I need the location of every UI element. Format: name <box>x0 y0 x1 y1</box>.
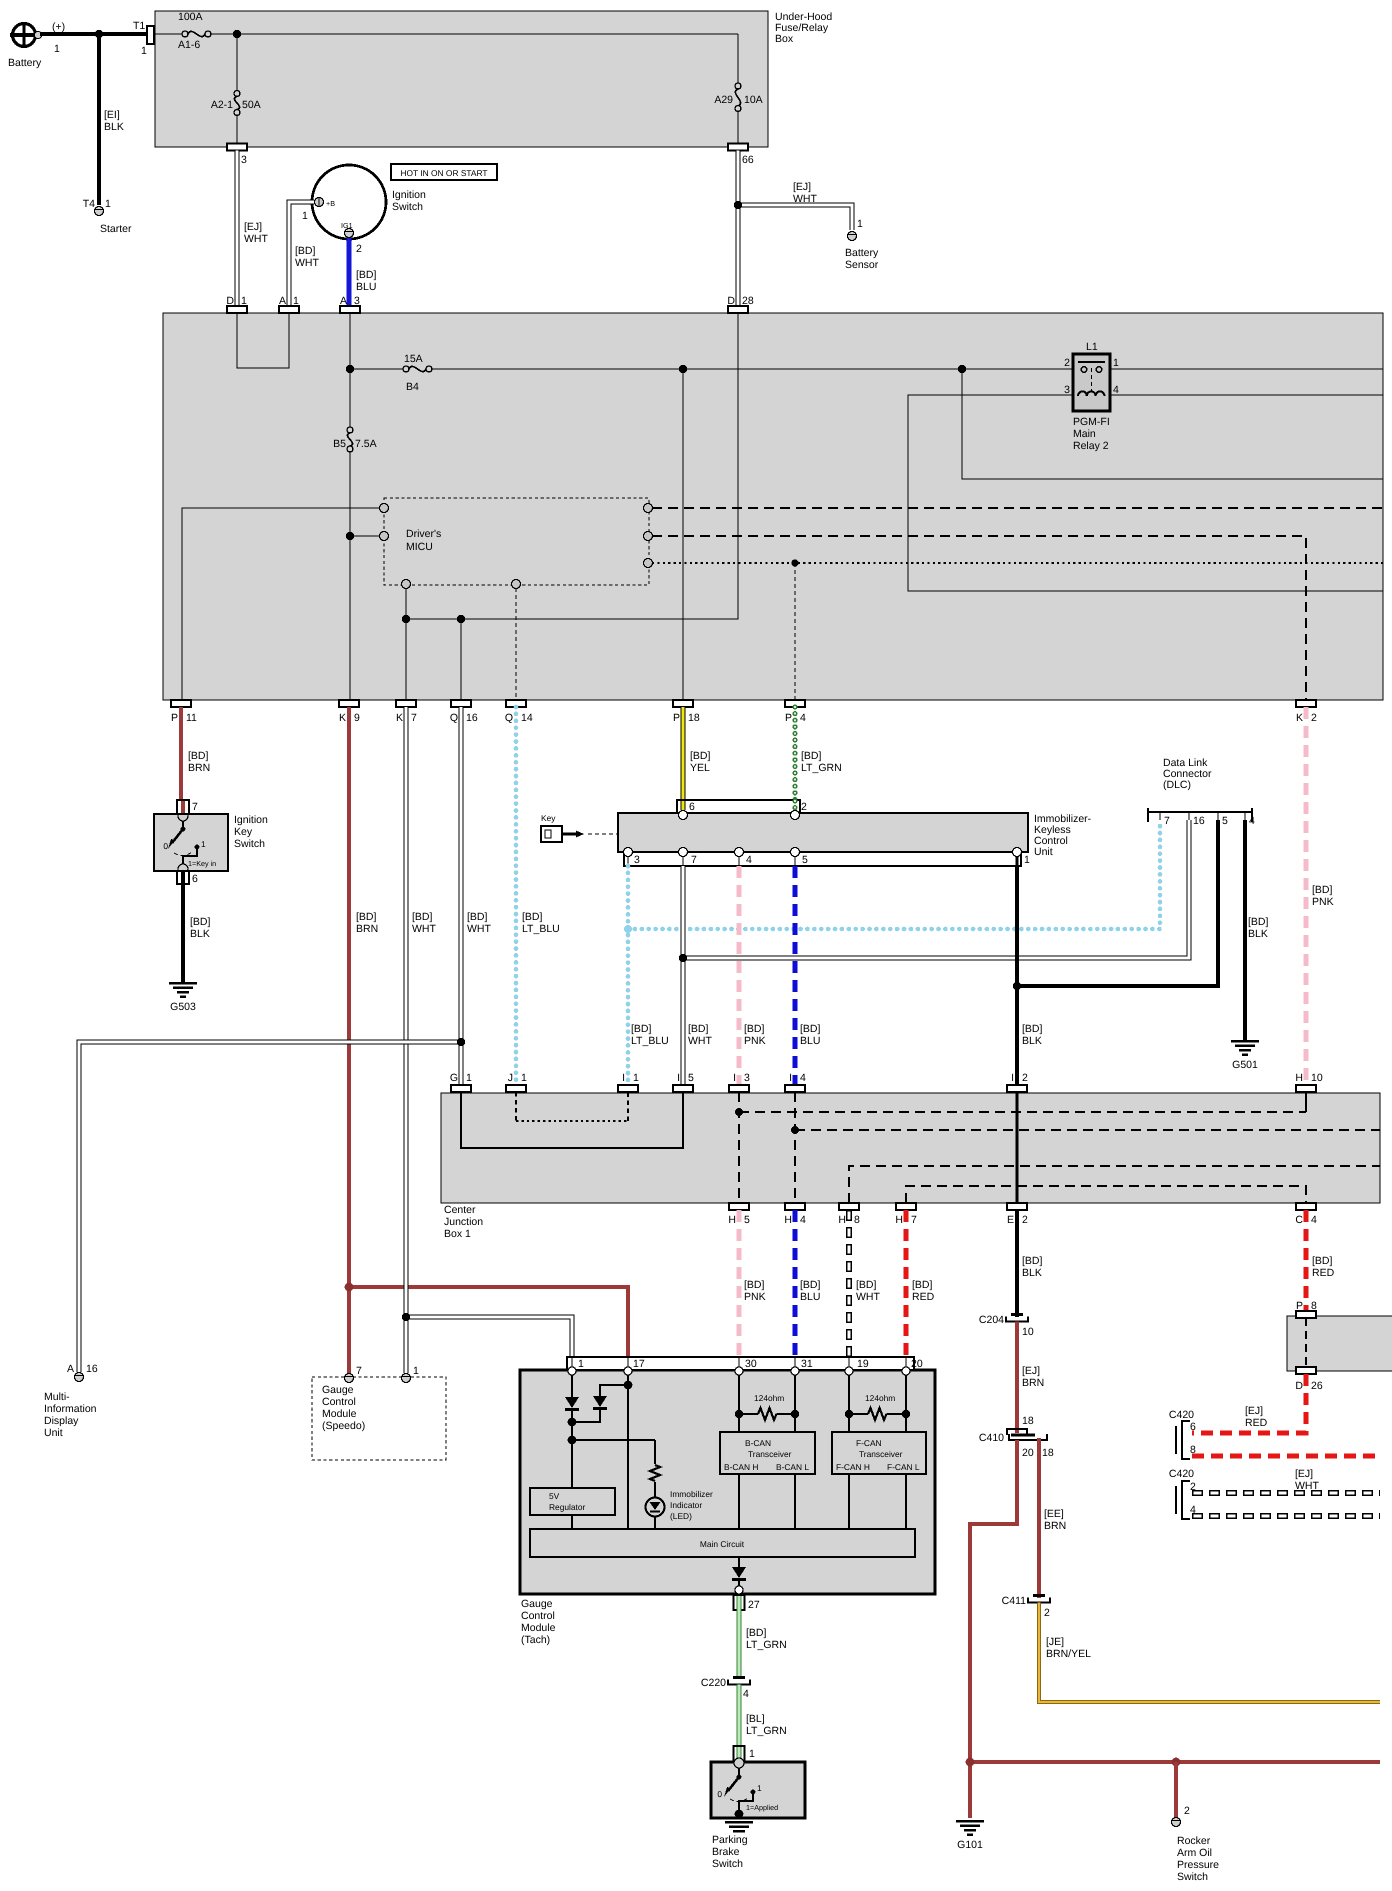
svg-text:C420: C420 <box>1169 1468 1194 1480</box>
svg-text:7: 7 <box>356 1365 362 1377</box>
tach pin 30 <box>735 1357 743 1375</box>
connector T1 <box>133 20 154 57</box>
svg-text:66: 66 <box>742 154 754 166</box>
svg-text:3: 3 <box>634 854 640 866</box>
svg-text:P: P <box>673 712 680 724</box>
wire [BD] BLU H4 to tach 31 dashed <box>795 1210 821 1357</box>
svg-text:Control: Control <box>322 1396 356 1408</box>
svg-text:BLK: BLK <box>1022 1267 1042 1279</box>
MICU pin right2 <box>644 532 653 541</box>
svg-text:3: 3 <box>744 1072 750 1084</box>
svg-text:F-CAN: F-CAN <box>856 1438 882 1448</box>
svg-text:PNK: PNK <box>744 1035 766 1047</box>
svg-text:[BD]: [BD] <box>467 911 488 923</box>
node LED branch junction <box>568 1436 577 1445</box>
wire D1-A1 link inside box <box>237 313 289 368</box>
svg-text:4: 4 <box>746 854 752 866</box>
svg-text:28: 28 <box>742 295 754 307</box>
svg-text:[BD]: [BD] <box>856 1279 877 1291</box>
fuse 100A A1-6 <box>154 11 211 51</box>
diode output tach <box>732 1557 746 1590</box>
svg-text:Key: Key <box>234 826 253 838</box>
under-dash fuse/relay box (main) <box>163 313 1383 700</box>
svg-text:J: J <box>508 1072 513 1084</box>
wire battery to T1 <box>40 32 150 36</box>
wire [JE] BRN/YEL C411 to right edge <box>1039 1603 1380 1703</box>
B-CAN transceiver <box>720 1432 815 1529</box>
node BLK junction <box>1013 982 1021 990</box>
wire [EJ] BRN C204 to C410 <box>1017 1322 1044 1434</box>
node battery junction <box>95 30 103 38</box>
connector 66 (box1 bottom) <box>728 144 754 167</box>
immobilizer pin 1 <box>1013 848 1022 867</box>
tach pin 31 <box>791 1357 799 1375</box>
svg-text:[BD]: [BD] <box>188 750 209 762</box>
svg-text:Transceiver: Transceiver <box>859 1449 903 1459</box>
node I4 junction <box>791 1126 799 1134</box>
svg-text:PNK: PNK <box>744 1291 766 1303</box>
svg-text:G: G <box>450 1072 458 1084</box>
ground G101 <box>956 1820 984 1851</box>
svg-text:I: I <box>1011 1072 1014 1084</box>
wire I3-H5 dashed <box>738 1092 740 1203</box>
wire P8 to D26 dashed inside box <box>1305 1318 1307 1367</box>
svg-text:BLK: BLK <box>104 121 124 133</box>
svg-text:H: H <box>838 1214 846 1226</box>
svg-text:BLU: BLU <box>356 281 376 293</box>
key symbol <box>541 813 584 842</box>
svg-text:I: I <box>789 1072 792 1084</box>
svg-text:5: 5 <box>744 1214 750 1226</box>
wire branch to battery sensor (double) <box>738 181 852 230</box>
svg-text:BRN: BRN <box>188 762 210 774</box>
parking brake ground <box>725 1810 753 1833</box>
connector G1 <box>450 1072 472 1092</box>
wire H10 stub <box>1305 1092 1307 1112</box>
svg-text:4: 4 <box>800 1214 806 1226</box>
svg-text:BRN: BRN <box>356 923 378 935</box>
svg-text:B5: B5 <box>333 438 346 450</box>
svg-text:1=Applied: 1=Applied <box>746 1803 778 1812</box>
svg-text:Ignition: Ignition <box>392 189 426 201</box>
svg-text:Q: Q <box>450 712 458 724</box>
svg-text:1: 1 <box>201 839 206 849</box>
wire [BL] LT_GRN C220 to parking brake <box>739 1685 787 1747</box>
immobilizer pin 4 <box>735 848 744 867</box>
connector 3 (box1 bottom) <box>227 144 247 167</box>
svg-text:18: 18 <box>1022 1415 1034 1427</box>
svg-text:1: 1 <box>521 1072 527 1084</box>
wire [EJ] WHT 66 to D28 (double) <box>736 151 741 307</box>
svg-text:17: 17 <box>633 1358 645 1370</box>
svg-text:WHT: WHT <box>856 1291 880 1303</box>
svg-text:Parking: Parking <box>712 1834 748 1846</box>
svg-text:5: 5 <box>688 1072 694 1084</box>
diode D2 tach branch <box>568 1375 633 1426</box>
wire [BD] BLK key switch to G503 <box>183 884 211 983</box>
node I3 junction <box>735 1108 743 1116</box>
svg-text:Box: Box <box>775 33 794 45</box>
svg-text:30: 30 <box>745 1358 757 1370</box>
wire [BD] LT_GRN pin27 to C220 <box>739 1610 787 1679</box>
svg-text:WHT: WHT <box>412 923 436 935</box>
wire K7 branch to tach pin1 (double) <box>406 1317 572 1358</box>
connector P18 <box>673 700 700 724</box>
svg-text:16: 16 <box>466 712 478 724</box>
wire fuse to A29 drop <box>211 33 738 35</box>
connector C411 <box>1002 1594 1050 1619</box>
svg-text:3: 3 <box>1064 384 1070 396</box>
svg-text:[EJ]: [EJ] <box>1245 1405 1263 1417</box>
svg-text:124ohm: 124ohm <box>865 1393 895 1403</box>
svg-text:MICU: MICU <box>406 541 433 553</box>
connector I1 <box>618 1072 639 1092</box>
svg-text:C420: C420 <box>1169 1409 1194 1421</box>
5V regulator <box>530 1488 615 1529</box>
node Q16 junction <box>457 615 465 623</box>
wire I2-E2 <box>1016 1092 1019 1203</box>
tach pin 20 <box>902 1357 910 1375</box>
svg-text:A: A <box>67 1363 74 1375</box>
wire A3 vertical to K9 <box>349 313 351 427</box>
pass-through box right (P8/D26) <box>1287 1316 1392 1371</box>
svg-text:Pressure: Pressure <box>1177 1859 1219 1871</box>
node relay feed junction <box>958 365 966 373</box>
svg-text:5V: 5V <box>549 1491 560 1501</box>
wire I4 branch dashed to edge <box>795 1129 1380 1131</box>
svg-text:[BD]: [BD] <box>800 1023 821 1035</box>
svg-text:[BD]: [BD] <box>690 750 711 762</box>
svg-text:WHT: WHT <box>295 257 319 269</box>
svg-text:Module: Module <box>521 1622 556 1634</box>
svg-text:[BD]: [BD] <box>744 1023 765 1035</box>
wire MICU right3 dotted to edge <box>652 562 1383 564</box>
wire relay pin1 to edge <box>1110 368 1383 370</box>
wire junction drop to right edge <box>962 369 1383 479</box>
svg-text:D: D <box>727 295 735 307</box>
resistor 124ohm F-CAN <box>845 1375 910 1432</box>
svg-text:PNK: PNK <box>1312 896 1334 908</box>
node A1-6 junction <box>233 30 241 38</box>
connector K2 <box>1296 700 1317 724</box>
svg-text:(LED): (LED) <box>670 1511 692 1521</box>
rocker arm oil pressure switch <box>1172 1762 1220 1883</box>
svg-text:1: 1 <box>413 1365 419 1377</box>
wire LT_BLU branch to DLC 7 dotted <box>628 820 1160 929</box>
wire relay pin3 loop to edge <box>908 395 1383 591</box>
svg-text:LT_BLU: LT_BLU <box>631 1035 669 1047</box>
svg-text:(Speedo): (Speedo) <box>322 1420 365 1432</box>
svg-text:15A: 15A <box>404 353 423 365</box>
wire MICU left2 to A3 line <box>350 535 380 537</box>
wire G1-I5 link <box>461 1092 683 1148</box>
svg-text:[BD]: [BD] <box>356 911 377 923</box>
svg-text:P: P <box>1296 1300 1303 1312</box>
node K9 branch junction <box>345 1283 354 1292</box>
wire [BD] RED H7 to tach 20 dashed <box>906 1210 935 1357</box>
svg-text:1: 1 <box>633 1072 639 1084</box>
svg-text:0: 0 <box>717 1789 722 1799</box>
svg-text:18: 18 <box>688 712 700 724</box>
driver's MICU dashed box <box>384 498 649 585</box>
wire BLK branch to DLC 5 <box>1017 820 1218 986</box>
fuse A29 10A <box>714 34 762 144</box>
svg-text:[BD]: [BD] <box>1022 1023 1043 1035</box>
svg-text:6: 6 <box>1190 1421 1196 1433</box>
node A3 15A junction <box>346 365 354 373</box>
svg-text:7: 7 <box>911 1214 917 1226</box>
svg-text:K: K <box>339 712 346 724</box>
connector Q14 <box>505 700 533 724</box>
wire [BD] LT_GRN P4 to immobilizer 2 (rings) <box>795 707 842 800</box>
svg-text:F-CAN L: F-CAN L <box>887 1462 920 1472</box>
svg-text:H: H <box>784 1214 792 1226</box>
svg-text:(DLC): (DLC) <box>1163 779 1191 791</box>
tach pin 19 <box>845 1357 853 1375</box>
svg-text:YEL: YEL <box>690 762 710 774</box>
under-hood fuse/relay box <box>155 11 832 147</box>
wire MICU right1 dashed to edge <box>652 507 1383 509</box>
svg-text:5: 5 <box>1222 815 1228 827</box>
svg-text:A29: A29 <box>714 94 733 106</box>
svg-text:Main Circuit: Main Circuit <box>700 1539 745 1549</box>
svg-text:WHT: WHT <box>688 1035 712 1047</box>
svg-text:3: 3 <box>241 154 247 166</box>
fuse 15A B4 <box>350 353 432 393</box>
svg-text:LT_GRN: LT_GRN <box>746 1639 787 1651</box>
connector D26 <box>1295 1367 1322 1392</box>
svg-text:[BD]: [BD] <box>295 245 316 257</box>
svg-text:11: 11 <box>186 712 197 724</box>
svg-text:Module: Module <box>322 1408 357 1420</box>
svg-text:8: 8 <box>854 1214 860 1226</box>
svg-text:Driver's: Driver's <box>406 528 441 540</box>
fuse A2-1 50A <box>211 34 261 144</box>
node P4 dotted junction <box>791 559 798 566</box>
connector C420 lower <box>1169 1468 1196 1519</box>
tach pin 17 <box>624 1357 632 1375</box>
svg-text:20: 20 <box>1022 1447 1034 1459</box>
node WHT junction <box>679 954 687 962</box>
relay L1 PGM-FI main relay 2 <box>1064 341 1119 452</box>
svg-text:7: 7 <box>411 712 417 724</box>
svg-text:[BD]: [BD] <box>190 916 211 928</box>
svg-text:Switch: Switch <box>392 201 423 213</box>
svg-text:BLK: BLK <box>190 928 210 940</box>
svg-text:1: 1 <box>241 295 247 307</box>
svg-text:Gauge: Gauge <box>521 1598 553 1610</box>
svg-text:+B: +B <box>326 199 335 208</box>
svg-text:K: K <box>396 712 403 724</box>
wire H8 dashed to edge <box>849 1166 1380 1203</box>
tach pin 1 <box>568 1357 576 1375</box>
connector E2 <box>1007 1203 1028 1226</box>
svg-text:Starter: Starter <box>100 223 132 235</box>
svg-text:18: 18 <box>1042 1447 1054 1459</box>
ignition key switch pin 6 <box>177 864 198 885</box>
ground G501 <box>1231 1040 1259 1071</box>
tach top connector strip <box>567 1357 923 1370</box>
svg-text:C204: C204 <box>979 1314 1004 1326</box>
svg-text:4: 4 <box>1249 815 1255 827</box>
node K7 branch junction <box>402 1313 410 1321</box>
battery <box>8 21 65 69</box>
svg-text:10A: 10A <box>744 94 763 106</box>
node A3-MICU junction <box>346 532 354 540</box>
tach pin 27 <box>734 1586 760 1611</box>
svg-text:[BD]: [BD] <box>631 1023 652 1035</box>
svg-text:Ignition: Ignition <box>234 814 268 826</box>
svg-text:1: 1 <box>1113 357 1119 369</box>
svg-text:31: 31 <box>801 1358 813 1370</box>
svg-text:[BD]: [BD] <box>744 1279 765 1291</box>
svg-text:1: 1 <box>141 45 147 57</box>
svg-text:P: P <box>171 712 178 724</box>
svg-text:D: D <box>226 295 234 307</box>
svg-text:A2-1: A2-1 <box>211 99 233 111</box>
svg-text:[BD]: [BD] <box>522 911 543 923</box>
svg-text:[BD]: [BD] <box>1022 1255 1043 1267</box>
connector K7 <box>396 700 417 724</box>
svg-text:Center: Center <box>444 1204 476 1216</box>
speedo module pin 1 <box>402 1365 420 1383</box>
wire relay pin4 to edge <box>1110 394 1383 396</box>
svg-text:Q: Q <box>505 712 513 724</box>
parking brake switch pin 1 <box>734 1746 756 1768</box>
svg-text:Sensor: Sensor <box>845 259 879 271</box>
svg-text:Switch: Switch <box>1177 1871 1208 1883</box>
svg-text:26: 26 <box>1311 1380 1323 1392</box>
svg-text:RED: RED <box>912 1291 935 1303</box>
wire [EJ] WHT 3 to D1 (double) <box>237 151 268 307</box>
svg-text:Switch: Switch <box>234 838 265 850</box>
svg-text:Battery: Battery <box>8 57 42 69</box>
svg-text:Regulator: Regulator <box>549 1502 586 1512</box>
node G101 junction <box>966 1758 975 1767</box>
svg-text:B-CAN: B-CAN <box>745 1438 771 1448</box>
wire [BD] LT_BLU immobilizer 3 to I1 dotted <box>628 866 669 1085</box>
svg-text:B4: B4 <box>406 381 419 393</box>
wire [BD] WHT H8 to tach 19 outlined dash <box>849 1210 880 1357</box>
gauge control module (tach) box <box>520 1370 935 1646</box>
svg-text:[BD]: [BD] <box>1248 916 1269 928</box>
immobilizer pin 7 <box>679 848 688 867</box>
connector A1 <box>279 295 299 313</box>
svg-text:Transceiver: Transceiver <box>748 1449 792 1459</box>
svg-text:G503: G503 <box>170 1001 196 1013</box>
svg-text:WHT: WHT <box>793 193 817 205</box>
connector H8 <box>838 1203 860 1226</box>
wire [EJ] RED D26 to C420-6 dashed <box>1192 1374 1306 1433</box>
starter terminal T4 <box>83 198 132 235</box>
svg-text:10: 10 <box>1311 1072 1323 1084</box>
immobilizer pin 3 <box>624 848 633 867</box>
wire [BD] BRN K9 long vertical <box>349 707 378 1373</box>
node 66-wire junction <box>734 201 742 209</box>
svg-text:WHT: WHT <box>1295 1480 1319 1492</box>
svg-text:20: 20 <box>911 1358 923 1370</box>
immobilizer pin 2 <box>791 811 800 820</box>
node rocker junction <box>1172 1758 1181 1767</box>
svg-text:Unit: Unit <box>44 1427 63 1439</box>
wire [BD] WHT K7 vertical (double) <box>406 707 436 1373</box>
wire I4-H4 dashed <box>794 1092 796 1203</box>
svg-text:[EJ]: [EJ] <box>244 221 262 233</box>
svg-text:1: 1 <box>54 43 60 55</box>
wire H10 to I3 dashed <box>739 1111 1306 1113</box>
svg-text:124ohm: 124ohm <box>754 1393 784 1403</box>
svg-text:A: A <box>340 295 347 307</box>
MICU pin right1 <box>644 504 653 513</box>
svg-text:2: 2 <box>1022 1214 1028 1226</box>
connector I4 <box>785 1072 806 1092</box>
svg-text:Key: Key <box>541 813 556 823</box>
gauge control module (speedo) dashed box <box>312 1377 446 1460</box>
node K7 junction <box>402 615 410 623</box>
wire [BD] BLU immobilizer 5 to I4 dashed <box>795 866 821 1085</box>
svg-text:H: H <box>895 1214 903 1226</box>
svg-text:2: 2 <box>1044 1607 1050 1619</box>
wire J1-I1 dotted link <box>515 1092 517 1121</box>
diode D1 tach <box>565 1375 579 1488</box>
ignition key switch pin 7 <box>177 800 198 821</box>
svg-text:P: P <box>785 712 792 724</box>
svg-text:0: 0 <box>163 841 168 851</box>
svg-text:2: 2 <box>1064 357 1070 369</box>
wire [BD] LT_BLU Q14 to J1 dotted <box>516 707 560 1085</box>
svg-text:I: I <box>677 1072 680 1084</box>
immobilizer bottom connector strip <box>624 852 1030 866</box>
svg-text:BRN: BRN <box>1022 1377 1044 1389</box>
wire [EJ] WHT C420-2 to edge outlined dash <box>1192 1468 1380 1493</box>
wire P4 drop dashed <box>794 563 796 700</box>
svg-text:[BD]: [BD] <box>1312 884 1333 896</box>
svg-text:K: K <box>1296 712 1303 724</box>
svg-text:100A: 100A <box>178 11 203 23</box>
ground G503 <box>169 982 197 1013</box>
connector H5 <box>728 1203 750 1226</box>
svg-text:1=Key in: 1=Key in <box>188 859 216 868</box>
wire H7 to C4 dashed <box>906 1186 1306 1203</box>
svg-text:G501: G501 <box>1232 1059 1258 1071</box>
wire Q16 drop <box>460 619 462 700</box>
main circuit <box>530 1529 915 1557</box>
svg-text:6: 6 <box>192 873 198 885</box>
wire K9 branch to tach pin17 <box>349 1287 628 1358</box>
svg-text:[EJ]: [EJ] <box>1295 1468 1313 1480</box>
wire branch to LED resistor <box>572 1439 655 1441</box>
svg-text:1: 1 <box>1024 854 1030 866</box>
wire [BD] PNK K2 to H10 dashed <box>1306 707 1334 1085</box>
svg-text:Control: Control <box>521 1610 555 1622</box>
svg-text:[BD]: [BD] <box>801 750 822 762</box>
data link connector (DLC) <box>1148 757 1255 827</box>
immobilizer top connector strip <box>677 800 807 813</box>
svg-text:5: 5 <box>802 854 808 866</box>
wire MICU bottom2 dashed to Q14 <box>515 588 517 700</box>
immobilizer indicator LED <box>646 1489 714 1529</box>
svg-text:Junction: Junction <box>444 1216 483 1228</box>
svg-text:Unit: Unit <box>1034 846 1053 858</box>
connector D1 <box>226 295 247 313</box>
svg-text:C410: C410 <box>979 1432 1004 1444</box>
ignition key switch box <box>154 814 268 871</box>
connector C410 <box>979 1415 1054 1459</box>
svg-text:[EJ]: [EJ] <box>793 181 811 193</box>
wire branch to multi-information display (double) <box>79 1042 461 1372</box>
wire [BD] BRN P11 to key switch <box>181 707 210 800</box>
svg-text:50A: 50A <box>242 99 261 111</box>
